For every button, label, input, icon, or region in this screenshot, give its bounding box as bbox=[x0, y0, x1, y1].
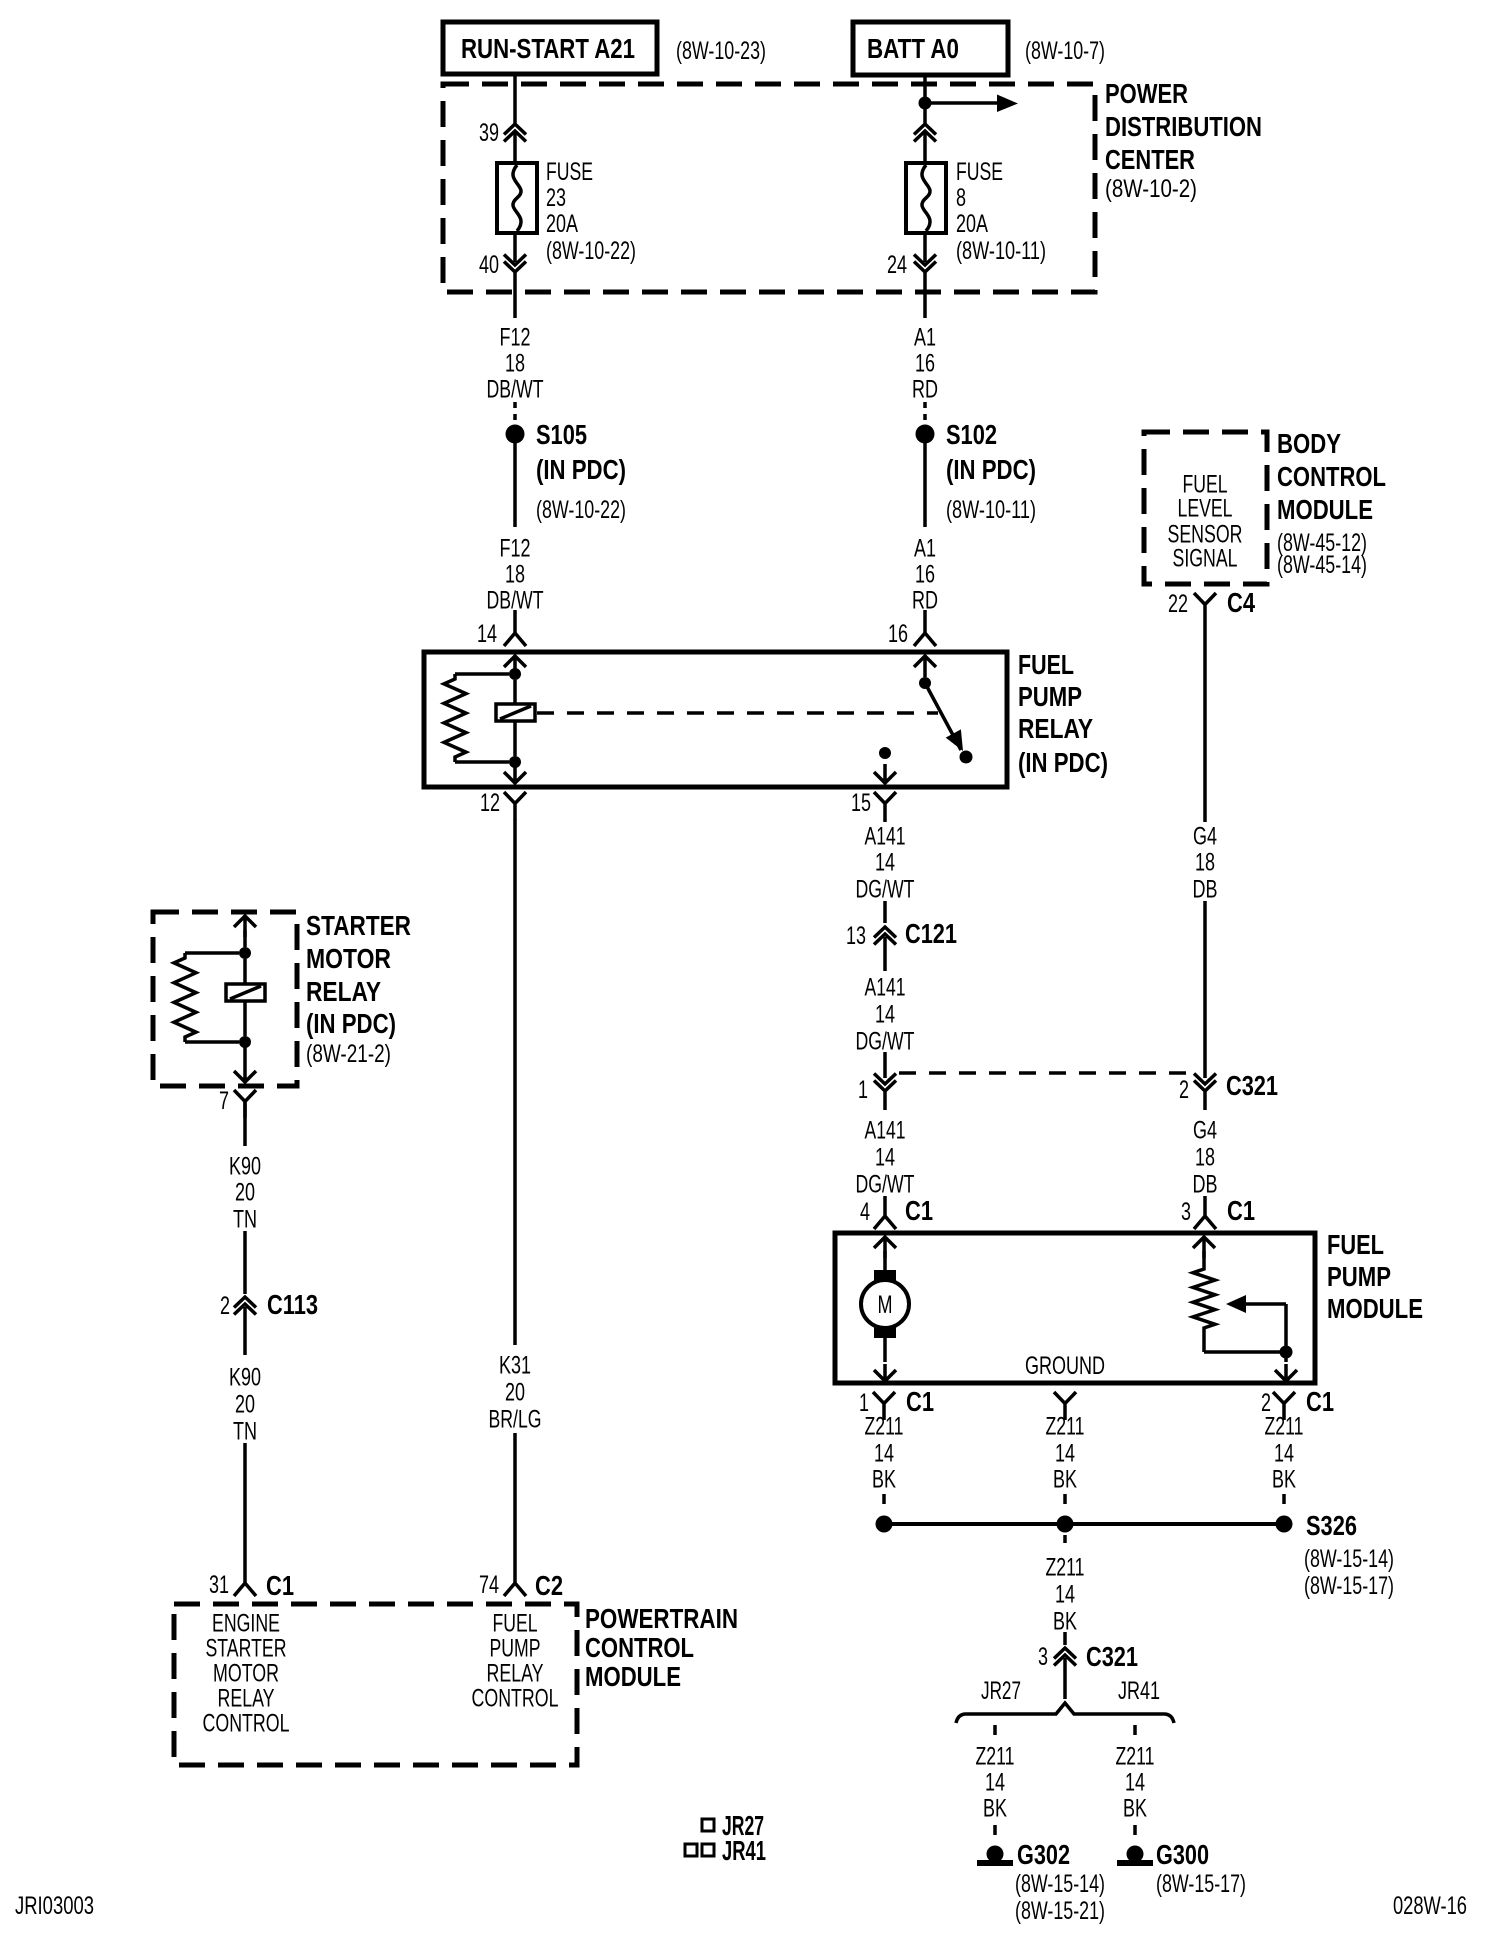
svg-text:2: 2 bbox=[220, 1292, 230, 1320]
svg-text:BK: BK bbox=[983, 1795, 1007, 1823]
wire stub below S326 bbox=[1063, 1535, 1067, 1543]
svg-text:BK: BK bbox=[1123, 1795, 1147, 1823]
wire below C121 bbox=[883, 937, 887, 971]
reference (8W-10-23) bbox=[676, 37, 766, 65]
svg-text:K90: K90 bbox=[229, 1364, 261, 1392]
svg-text:(8W-45-14): (8W-45-14) bbox=[1277, 551, 1367, 579]
svg-text:BK: BK bbox=[1272, 1466, 1296, 1494]
fuse 8 value label bbox=[956, 158, 1046, 265]
wire label K31 20 BR/LG bbox=[489, 1352, 542, 1434]
wire K90 to C113 bbox=[243, 1231, 247, 1294]
relay switch blade bbox=[925, 683, 973, 764]
wire label Z211 14 BK (ground) bbox=[1046, 1413, 1085, 1494]
svg-text:15: 15 bbox=[851, 789, 871, 817]
wire below C321 pin1 bbox=[883, 1091, 887, 1110]
svg-text:BK: BK bbox=[1053, 1466, 1077, 1494]
svg-text:C321: C321 bbox=[1086, 1641, 1138, 1672]
svg-text:7: 7 bbox=[219, 1087, 229, 1115]
svg-text:DISTRIBUTION: DISTRIBUTION bbox=[1105, 111, 1262, 142]
label ENGINE STARTER MOTOR RELAY CONTROL bbox=[203, 1610, 290, 1738]
svg-text:RD: RD bbox=[912, 376, 938, 404]
connector C113 pin 2 bbox=[220, 1289, 318, 1320]
connector C321 pin 2 bbox=[1179, 1070, 1278, 1104]
wire label G4 18 DB (2) bbox=[1193, 1117, 1218, 1199]
reference (8W-10-7) bbox=[1025, 37, 1105, 65]
svg-text:CONTROL: CONTROL bbox=[203, 1710, 290, 1738]
svg-text:DG/WT: DG/WT bbox=[856, 1028, 915, 1056]
motor feed arrow bbox=[874, 1237, 896, 1270]
wire label Z211 14 BK (G300) bbox=[1116, 1743, 1155, 1823]
splice S326 label bbox=[1304, 1510, 1394, 1600]
svg-text:18: 18 bbox=[1195, 1144, 1215, 1172]
svg-text:14: 14 bbox=[1274, 1440, 1294, 1468]
pin 24 connector (PDC) bbox=[887, 233, 936, 279]
wire stub to G302 bbox=[993, 1825, 997, 1835]
wire RUN-START to fuse 23 bbox=[513, 74, 517, 163]
svg-text:74: 74 bbox=[479, 1571, 499, 1599]
relay coil bbox=[496, 680, 535, 756]
legend JR41 marker bbox=[685, 1835, 766, 1866]
pin 7 connector below starter relay bbox=[219, 1087, 256, 1118]
pin 15 connector below relay bbox=[851, 789, 896, 820]
svg-text:RELAY: RELAY bbox=[306, 976, 381, 1007]
sender wiper arrow bbox=[1226, 1295, 1286, 1352]
wire below C321 pin2 bbox=[1203, 1091, 1207, 1110]
svg-text:C2: C2 bbox=[535, 1570, 563, 1601]
ground G302 bbox=[977, 1839, 1070, 1870]
wire label A141 14 DG/WT (3) bbox=[856, 1117, 915, 1199]
pin 2 connector C1 bbox=[1261, 1386, 1334, 1420]
svg-text:DB: DB bbox=[1193, 876, 1218, 904]
svg-text:Z211: Z211 bbox=[1046, 1413, 1085, 1441]
connector C321 pin 3 bbox=[1038, 1632, 1138, 1672]
svg-text:RELAY: RELAY bbox=[1018, 713, 1093, 744]
wire K90 lower bbox=[243, 1443, 247, 1566]
wire S102 down bbox=[923, 443, 927, 527]
splice S326 bus bbox=[876, 1516, 1293, 1533]
svg-text:GROUND: GROUND bbox=[1025, 1352, 1105, 1380]
svg-text:CONTROL: CONTROL bbox=[472, 1685, 559, 1713]
ground G300 bbox=[1117, 1839, 1209, 1870]
wire label K90 20 TN bbox=[229, 1153, 261, 1234]
svg-text:Z211: Z211 bbox=[976, 1743, 1015, 1771]
svg-text:14: 14 bbox=[985, 1769, 1005, 1797]
label POWERTRAIN CONTROL MODULE bbox=[585, 1603, 738, 1692]
svg-text:(8W-15-21): (8W-15-21) bbox=[1015, 1897, 1105, 1925]
svg-text:(IN PDC): (IN PDC) bbox=[946, 454, 1036, 485]
svg-text:Z211: Z211 bbox=[1046, 1554, 1085, 1582]
svg-text:FUSE: FUSE bbox=[546, 158, 593, 186]
svg-text:Z211: Z211 bbox=[1116, 1743, 1155, 1771]
sender return wire bbox=[1204, 1333, 1297, 1381]
svg-text:MOTOR: MOTOR bbox=[213, 1660, 279, 1688]
svg-text:K90: K90 bbox=[229, 1153, 261, 1181]
wire G4 from BCM bbox=[1203, 621, 1207, 822]
svg-text:STARTER: STARTER bbox=[206, 1635, 287, 1663]
svg-text:14: 14 bbox=[875, 1001, 895, 1029]
svg-text:MODULE: MODULE bbox=[1277, 494, 1373, 525]
svg-text:S105: S105 bbox=[536, 419, 587, 450]
wire G4 to C321 bbox=[1203, 901, 1207, 1078]
svg-text:C1: C1 bbox=[906, 1386, 934, 1417]
power distribution center dashed box bbox=[443, 84, 1095, 292]
svg-text:BK: BK bbox=[1053, 1608, 1077, 1636]
wire to C121 bbox=[883, 901, 887, 923]
wire label F12 18 DB/WT (lower) bbox=[487, 535, 544, 615]
svg-text:40: 40 bbox=[479, 251, 499, 279]
dashed connector line C321 bbox=[899, 1071, 1191, 1075]
sheet id 028W-16 bbox=[1393, 1892, 1467, 1920]
svg-text:DB/WT: DB/WT bbox=[487, 376, 544, 404]
svg-text:Z211: Z211 bbox=[865, 1413, 904, 1441]
wire stubs to splice bus bbox=[884, 1494, 1284, 1504]
svg-text:13: 13 bbox=[846, 922, 866, 950]
fuel pump module box bbox=[835, 1233, 1315, 1383]
pin 40 connector (PDC) bbox=[479, 233, 526, 279]
pin 31 connector C1 bbox=[209, 1566, 294, 1601]
svg-text:C321: C321 bbox=[1226, 1070, 1278, 1101]
relay common terminal arrow (pin 16) bbox=[914, 656, 936, 677]
svg-text:14: 14 bbox=[1055, 1581, 1075, 1609]
svg-text:BR/LG: BR/LG bbox=[489, 1406, 542, 1434]
svg-text:RELAY: RELAY bbox=[487, 1660, 544, 1688]
svg-text:S102: S102 bbox=[946, 419, 997, 450]
svg-text:A1: A1 bbox=[914, 324, 936, 352]
relay suppression resistor bbox=[444, 674, 509, 762]
svg-text:STARTER: STARTER bbox=[306, 910, 411, 941]
svg-text:20: 20 bbox=[235, 1391, 255, 1419]
svg-text:C1: C1 bbox=[1227, 1195, 1255, 1226]
wire label Z211 14 BK (G302) bbox=[976, 1743, 1015, 1823]
connector C121 pin 13 bbox=[846, 918, 957, 950]
svg-text:RELAY: RELAY bbox=[218, 1685, 275, 1713]
svg-text:(8W-15-14): (8W-15-14) bbox=[1015, 1870, 1105, 1898]
label FUEL PUMP RELAY (IN PDC) bbox=[1018, 649, 1108, 778]
svg-text:20: 20 bbox=[235, 1179, 255, 1207]
svg-text:1: 1 bbox=[858, 1076, 868, 1104]
svg-text:MODULE: MODULE bbox=[1327, 1293, 1423, 1324]
splice S102 note bbox=[946, 454, 1036, 524]
powertrain control module dashed box bbox=[174, 1604, 577, 1765]
wire fuse 23 to S105 bbox=[513, 272, 517, 318]
relay coil top node bbox=[509, 668, 521, 680]
svg-text:(8W-10-11): (8W-10-11) bbox=[946, 496, 1036, 524]
svg-text:JRI03003: JRI03003 bbox=[15, 1892, 94, 1920]
wire K31 relay to PCM bbox=[513, 820, 517, 1346]
svg-text:20: 20 bbox=[505, 1379, 525, 1407]
svg-text:C113: C113 bbox=[267, 1289, 318, 1320]
wire label Z211 14 BK (pin2) bbox=[1265, 1413, 1304, 1494]
svg-text:14: 14 bbox=[1055, 1440, 1075, 1468]
svg-text:ENGINE: ENGINE bbox=[212, 1610, 280, 1638]
wire label Z211 14 BK (pin1) bbox=[865, 1413, 904, 1494]
svg-text:A141: A141 bbox=[865, 974, 906, 1002]
svg-text:M: M bbox=[878, 1291, 893, 1319]
wire label A141 14 DG/WT bbox=[856, 823, 915, 904]
svg-text:(IN PDC): (IN PDC) bbox=[1018, 747, 1108, 778]
svg-text:CENTER: CENTER bbox=[1105, 144, 1195, 175]
pin 4 connector C1 bbox=[860, 1195, 933, 1229]
pin connector above fuse 8 bbox=[914, 124, 936, 142]
svg-text:2: 2 bbox=[1179, 1076, 1189, 1104]
svg-text:(8W-21-2): (8W-21-2) bbox=[306, 1040, 391, 1068]
pin 1 connector C1 bbox=[859, 1386, 934, 1420]
relay starter motor dashed box bbox=[153, 912, 297, 1086]
svg-text:(8W-10-7): (8W-10-7) bbox=[1025, 37, 1105, 65]
svg-text:TN: TN bbox=[233, 1206, 257, 1234]
svg-text:CONTROL: CONTROL bbox=[585, 1632, 694, 1663]
starter relay coil feed arrow bbox=[234, 916, 256, 947]
svg-text:39: 39 bbox=[479, 119, 499, 147]
wire stub dashed bbox=[513, 402, 517, 420]
label FUEL LEVEL SENSOR SIGNAL bbox=[1168, 471, 1243, 573]
svg-text:(8W-10-11): (8W-10-11) bbox=[956, 237, 1046, 265]
svg-text:BODY: BODY bbox=[1277, 428, 1341, 459]
svg-text:8: 8 bbox=[956, 184, 966, 212]
starter relay coil bbox=[226, 959, 265, 1036]
svg-text:22: 22 bbox=[1168, 590, 1188, 618]
wire below C113 bbox=[243, 1307, 247, 1355]
svg-text:A141: A141 bbox=[865, 823, 906, 851]
svg-text:23: 23 bbox=[546, 184, 566, 212]
svg-text:18: 18 bbox=[505, 561, 525, 589]
wire BATT A0 to fuse 8 bbox=[923, 75, 927, 163]
svg-text:(8W-10-23): (8W-10-23) bbox=[676, 37, 766, 65]
motor ground wire bbox=[874, 1338, 896, 1381]
svg-text:G4: G4 bbox=[1193, 823, 1217, 851]
svg-text:SIGNAL: SIGNAL bbox=[1173, 545, 1238, 573]
svg-text:3: 3 bbox=[1038, 1643, 1048, 1671]
wire label G4 18 DB bbox=[1193, 823, 1218, 904]
wire stub to G300 bbox=[1133, 1825, 1137, 1835]
relay pin 12 exit arrow bbox=[504, 762, 526, 783]
wire fuse 8 to S102 bbox=[923, 272, 927, 318]
svg-text:G302: G302 bbox=[1017, 1839, 1070, 1870]
svg-text:LEVEL: LEVEL bbox=[1178, 495, 1233, 523]
svg-text:Z211: Z211 bbox=[1265, 1413, 1304, 1441]
label FUEL PUMP MODULE bbox=[1327, 1229, 1423, 1324]
wire to C321 pin 1 bbox=[883, 1052, 887, 1078]
relay actuation dashed link bbox=[537, 711, 938, 715]
pin 74 connector C2 bbox=[479, 1566, 563, 1601]
svg-text:MOTOR: MOTOR bbox=[306, 943, 391, 974]
motor M1 fuel pump bbox=[861, 1270, 909, 1338]
svg-text:JR41: JR41 bbox=[1118, 1677, 1160, 1705]
fuse 23 value label bbox=[546, 158, 636, 265]
wire C321 to takeout brace bbox=[1063, 1658, 1067, 1699]
wire S105 down bbox=[513, 443, 517, 527]
wire K31 lower bbox=[513, 1433, 517, 1566]
fuel level sender resistor bbox=[1193, 1237, 1215, 1333]
svg-text:31: 31 bbox=[209, 1571, 229, 1599]
node splice in PDC with feed arrow bbox=[919, 95, 1019, 113]
svg-text:24: 24 bbox=[887, 251, 907, 279]
wire stub dashed right bbox=[923, 402, 927, 420]
label JR27 bbox=[981, 1677, 1021, 1705]
svg-text:POWERTRAIN: POWERTRAIN bbox=[585, 1603, 738, 1634]
relay switch common node bbox=[919, 677, 931, 689]
svg-text:C4: C4 bbox=[1227, 587, 1255, 618]
wire label Z211 14 BK (below S326) bbox=[1046, 1554, 1085, 1636]
svg-text:FUSE: FUSE bbox=[956, 158, 1003, 186]
svg-text:FUEL: FUEL bbox=[1327, 1229, 1384, 1260]
ground G302 refs bbox=[1015, 1870, 1105, 1925]
starter relay exit arrow bbox=[234, 1042, 256, 1082]
takeout brace JR27/JR41 bbox=[956, 1703, 1174, 1723]
fuse 23 20A bbox=[497, 163, 537, 233]
wire relay pin 15 down bbox=[883, 820, 887, 823]
starter relay resistor bbox=[174, 953, 239, 1042]
svg-text:(IN PDC): (IN PDC) bbox=[306, 1008, 396, 1039]
wire stub G302 branch bbox=[993, 1725, 997, 1735]
svg-text:G4: G4 bbox=[1193, 1117, 1217, 1145]
svg-text:14: 14 bbox=[1125, 1769, 1145, 1797]
svg-text:A141: A141 bbox=[865, 1117, 906, 1145]
svg-text:16: 16 bbox=[915, 350, 935, 378]
svg-text:MODULE: MODULE bbox=[585, 1661, 681, 1692]
svg-text:PUMP: PUMP bbox=[1018, 681, 1082, 712]
pin 14 connector relay bbox=[477, 610, 526, 648]
svg-text:S326: S326 bbox=[1306, 1510, 1357, 1541]
svg-text:RUN-START A21: RUN-START A21 bbox=[461, 33, 635, 64]
fuse 8 20A bbox=[906, 163, 946, 233]
svg-text:G300: G300 bbox=[1156, 1839, 1209, 1870]
splice S105 note bbox=[536, 454, 626, 524]
svg-text:20A: 20A bbox=[956, 210, 988, 238]
splice S102 bbox=[916, 419, 998, 450]
svg-text:JR41: JR41 bbox=[722, 1835, 766, 1866]
node BATT A0 feed box bbox=[853, 22, 1008, 75]
svg-text:DG/WT: DG/WT bbox=[856, 876, 915, 904]
svg-text:(8W-15-14): (8W-15-14) bbox=[1304, 1545, 1394, 1573]
svg-text:(8W-15-17): (8W-15-17) bbox=[1156, 1870, 1246, 1898]
splice S105 bbox=[506, 419, 588, 450]
svg-text:F12: F12 bbox=[500, 324, 531, 352]
wire label F12 18 DB/WT bbox=[487, 324, 544, 404]
body control module dashed box bbox=[1144, 432, 1267, 584]
ground pin connector bbox=[1054, 1392, 1076, 1420]
ground G300 ref bbox=[1156, 1870, 1246, 1898]
svg-text:K31: K31 bbox=[499, 1352, 531, 1380]
pin 22 connector C4 bbox=[1168, 587, 1255, 621]
svg-text:CONTROL: CONTROL bbox=[1277, 461, 1386, 492]
label FUEL PUMP RELAY CONTROL bbox=[472, 1610, 559, 1713]
svg-text:20A: 20A bbox=[546, 210, 578, 238]
svg-text:14: 14 bbox=[477, 620, 497, 648]
svg-text:C1: C1 bbox=[266, 1570, 294, 1601]
label STARTER MOTOR RELAY (IN PDC) (8W-21-2) bbox=[306, 910, 411, 1068]
svg-text:PUMP: PUMP bbox=[1327, 1261, 1391, 1292]
relay NO contact pin 15 bbox=[874, 747, 896, 783]
pin 12 connector below relay bbox=[480, 789, 526, 820]
svg-text:028W-16: 028W-16 bbox=[1393, 1892, 1467, 1920]
svg-text:FUEL: FUEL bbox=[493, 1610, 538, 1638]
pin 39 connector (PDC) bbox=[479, 119, 526, 147]
relay coil bottom node bbox=[509, 756, 521, 768]
connector C321 pin 1 bbox=[858, 1074, 896, 1105]
svg-text:18: 18 bbox=[505, 350, 525, 378]
svg-text:BK: BK bbox=[872, 1466, 896, 1494]
wire label A141 14 DG/WT (2) bbox=[856, 974, 915, 1056]
svg-text:(8W-10-22): (8W-10-22) bbox=[546, 237, 636, 265]
wire label K90 20 TN (2) bbox=[229, 1364, 261, 1446]
svg-text:(IN PDC): (IN PDC) bbox=[536, 454, 626, 485]
svg-text:JR27: JR27 bbox=[981, 1677, 1021, 1705]
svg-text:(8W-10-2): (8W-10-2) bbox=[1105, 175, 1197, 203]
svg-text:POWER: POWER bbox=[1105, 78, 1188, 109]
svg-text:14: 14 bbox=[875, 1144, 895, 1172]
svg-text:(8W-10-22): (8W-10-22) bbox=[536, 496, 626, 524]
pin 3 connector C1 bbox=[1181, 1195, 1255, 1229]
pin 16 connector relay bbox=[888, 610, 936, 648]
wire label A1 16 RD bbox=[912, 324, 938, 404]
svg-text:4: 4 bbox=[860, 1198, 870, 1226]
svg-text:F12: F12 bbox=[500, 535, 531, 563]
svg-text:16: 16 bbox=[915, 561, 935, 589]
svg-text:A1: A1 bbox=[914, 535, 936, 563]
svg-text:PUMP: PUMP bbox=[490, 1635, 541, 1663]
svg-text:C1: C1 bbox=[905, 1195, 933, 1226]
wire label A1 16 RD (lower) bbox=[912, 535, 938, 615]
label JR41 bbox=[1118, 1677, 1160, 1705]
relay coil terminal arrow (pin 14) bbox=[504, 656, 526, 677]
svg-text:FUEL: FUEL bbox=[1018, 649, 1074, 680]
svg-text:18: 18 bbox=[1195, 849, 1215, 877]
wire to fuel pump module pin 4 bbox=[883, 1196, 887, 1199]
svg-text:(8W-15-17): (8W-15-17) bbox=[1304, 1572, 1394, 1600]
legend JR27 marker bbox=[702, 1810, 764, 1841]
svg-text:BATT A0: BATT A0 bbox=[867, 33, 959, 64]
svg-text:12: 12 bbox=[480, 789, 500, 817]
label BODY CONTROL MODULE bbox=[1277, 428, 1386, 579]
svg-text:TN: TN bbox=[233, 1418, 257, 1446]
svg-text:C1: C1 bbox=[1306, 1386, 1334, 1417]
label GROUND bbox=[1025, 1352, 1105, 1380]
svg-text:3: 3 bbox=[1181, 1198, 1191, 1226]
wire K90 upper bbox=[243, 1101, 247, 1146]
node RUN-START A21 feed box bbox=[443, 22, 657, 74]
starter relay bottom node bbox=[239, 1036, 251, 1048]
svg-text:DB: DB bbox=[1193, 1171, 1218, 1199]
label POWER DISTRIBUTION CENTER (8W-10-2) bbox=[1105, 78, 1262, 203]
wire to fuel pump module pin 3 bbox=[1203, 1196, 1207, 1199]
wire stub G300 branch bbox=[1133, 1725, 1137, 1735]
svg-text:C121: C121 bbox=[905, 918, 957, 949]
relay fuel pump box bbox=[424, 652, 1007, 787]
svg-text:14: 14 bbox=[874, 1440, 894, 1468]
starter relay top node bbox=[239, 947, 251, 959]
sheet id JRI03003 bbox=[15, 1892, 94, 1920]
svg-text:16: 16 bbox=[888, 620, 908, 648]
svg-text:14: 14 bbox=[875, 849, 895, 877]
